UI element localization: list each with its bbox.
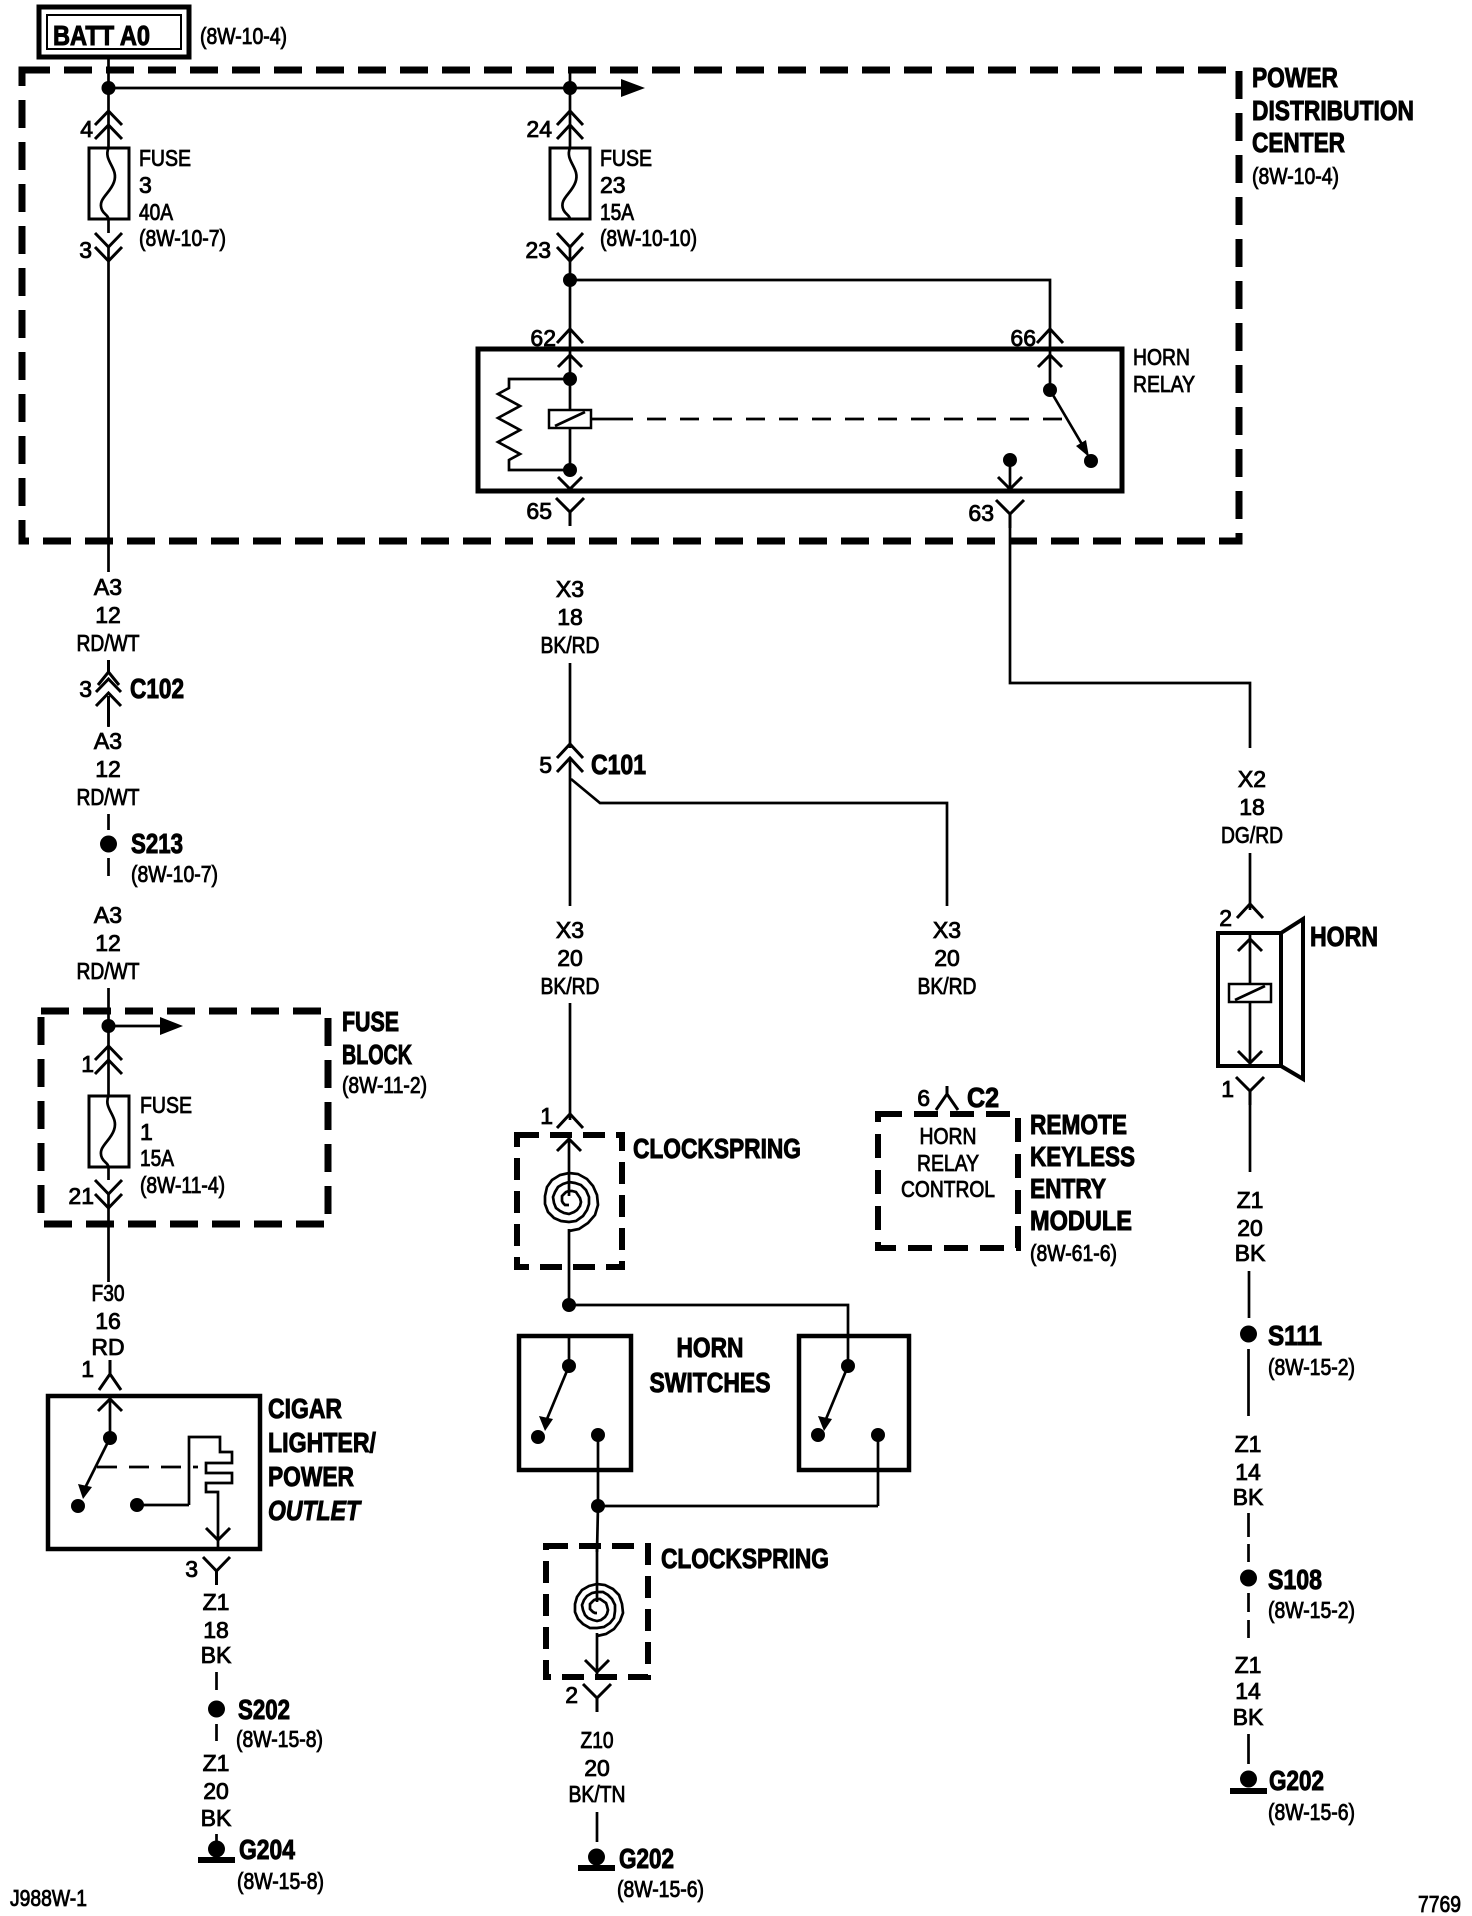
right horn switch box [799,1336,909,1470]
svg-text:20: 20 [934,945,960,971]
fuse F1 body [89,1096,129,1167]
svg-text:S213: S213 [131,828,183,859]
svg-text:OUTLET: OUTLET [268,1495,362,1526]
switch linkage dashed line [97,1466,198,1469]
pin 63 connector Y [996,500,1024,528]
node left switch contact [531,1430,545,1444]
cigar lighter label [268,1393,376,1526]
relay switch arm [1050,390,1098,468]
svg-text:S108: S108 [1268,1564,1322,1595]
arrow tap to other circuits [109,1017,184,1035]
wire fuse 23 to relay node [569,247,572,349]
svg-text:23: 23 [525,237,551,263]
wire A3 label (upper) [77,574,140,656]
wire right switch output down [877,1435,880,1506]
svg-text:RD/WT: RD/WT [77,784,140,810]
horn coil [1229,984,1271,1002]
wire from BATT A0 down into PDC [107,59,110,88]
svg-text:X2: X2 [1238,766,1266,792]
cigar switch arm [78,1438,110,1499]
svg-text:(8W-15-8): (8W-15-8) [237,1868,324,1894]
svg-text:14: 14 [1235,1459,1261,1485]
svg-text:(8W-15-2): (8W-15-2) [1268,1597,1355,1623]
horn relay label [1133,344,1195,397]
wire segment to S111 [1248,1271,1251,1318]
splice S108 [1240,1564,1355,1623]
svg-text:BK: BK [1235,1240,1266,1266]
svg-text:C2: C2 [967,1082,999,1113]
svg-text:FUSE: FUSE [342,1006,399,1037]
cigar lighter box [48,1396,260,1549]
svg-text:X3: X3 [933,917,961,943]
node right switch pivot [841,1359,855,1373]
splice S111 [1240,1320,1355,1380]
wire to clockspring pin 1 [569,1003,572,1120]
svg-text:1: 1 [1221,1076,1234,1102]
wire A3 label (middle) [77,720,140,810]
svg-text:SWITCHES: SWITCHES [650,1367,771,1398]
pin 3 connector Y [203,1557,230,1585]
svg-text:A3: A3 [94,574,122,600]
wire spiral to switches node [568,1229,571,1305]
pin 1 connector lambda [99,1360,121,1390]
svg-text:BK/RD: BK/RD [541,973,600,999]
wire left switch output down [597,1435,600,1506]
wire to Z1 label [1249,1105,1252,1172]
svg-text:16: 16 [95,1308,121,1334]
right switch arm [818,1366,848,1431]
svg-text:BK/RD: BK/RD [541,632,600,658]
svg-text:15A: 15A [600,199,635,225]
clockspring coil spiral (upper) [545,1173,598,1231]
svg-text:1: 1 [540,1103,553,1129]
wire segment to G202 [596,1812,599,1842]
horn coil return wire [1249,1002,1252,1066]
svg-text:HORN: HORN [677,1332,744,1363]
svg-text:G204: G204 [239,1834,295,1865]
svg-text:12: 12 [95,756,121,782]
svg-text:14: 14 [1235,1678,1261,1704]
svg-text:2: 2 [565,1682,578,1708]
svg-text:HORN: HORN [1133,344,1190,370]
relay pin 65 exit arrow [558,477,582,489]
svg-text:S202: S202 [238,1694,290,1725]
wire 65 to C101 [569,663,572,748]
svg-text:7769: 7769 [1418,1891,1461,1916]
pin 1 connector chevrons [95,1046,122,1074]
ground G202 (right) [1230,1765,1355,1825]
svg-text:FUSE: FUSE [600,145,652,171]
pin 65 connector Y [556,498,584,526]
svg-text:RD: RD [91,1334,124,1360]
svg-text:(8W-10-4): (8W-10-4) [200,23,287,49]
relay pin 62 entry arrow [558,355,582,367]
wire segment to C102 [107,660,110,668]
wire down to lower clockspring [597,1506,598,1552]
horn pin 2 entry arrow [1238,939,1262,951]
svg-text:CONTROL: CONTROL [901,1176,995,1202]
svg-text:X3: X3 [556,576,584,602]
svg-text:(8W-10-7): (8W-10-7) [139,225,226,251]
wire Z10 label [569,1727,626,1807]
node left switch output [591,1428,605,1442]
relay pin 66 entry arrow [1038,355,1062,367]
wire fuse 1 out of fuse block [107,1167,110,1180]
svg-text:21: 21 [68,1183,94,1209]
wire segment to S202 [215,1672,218,1690]
svg-text:18: 18 [557,604,583,630]
node top of coil [563,372,577,386]
svg-text:LIGHTER/: LIGHTER/ [268,1427,376,1458]
relay contact common wire [1049,349,1052,390]
svg-text:3: 3 [185,1556,198,1582]
wire X3 20 label (left) [541,917,600,999]
svg-text:40A: 40A [139,199,174,225]
pin 24 connector chevrons [557,111,583,139]
wire segment from S213 [107,858,110,876]
svg-text:3: 3 [139,172,152,198]
stub from dashed border to node [569,72,572,88]
connector C101 [539,744,646,780]
svg-text:(8W-10-7): (8W-10-7) [131,861,218,887]
svg-text:65: 65 [526,498,552,524]
horn relay box [478,349,1122,491]
pin 21 connector chevrons [95,1180,122,1208]
element exit arrow [206,1528,230,1540]
wire C101 down [569,758,572,906]
svg-text:2: 2 [1219,905,1232,931]
clockspring lower dashed box [546,1546,648,1677]
wire fuse 3 down and out of PDC [107,219,110,233]
svg-text:15A: 15A [140,1145,175,1171]
battery feed box BATT A0 [39,7,189,57]
node horn switch feed [562,1298,576,1312]
pin 3 connector chevrons [95,233,122,261]
pin 2 connector Y [583,1684,611,1712]
svg-text:3: 3 [79,237,92,263]
node at battery feed junction [102,81,116,95]
svg-text:A3: A3 [94,902,122,928]
svg-text:BK: BK [1233,1484,1264,1510]
svg-text:(8W-11-2): (8W-11-2) [342,1072,427,1098]
svg-text:HORN: HORN [920,1123,977,1149]
remote keyless entry module dashed box [878,1114,1018,1248]
node feeding fuse 23 [563,81,577,95]
wire Z1 14 label (lower) [1233,1652,1264,1730]
left switch arm [539,1366,569,1431]
horn speaker flare [1281,919,1303,1079]
svg-text:MODULE: MODULE [1030,1205,1132,1236]
pin 4 connector chevrons [95,111,122,139]
node switch pivot [103,1431,117,1445]
svg-text:G202: G202 [1269,1765,1324,1796]
svg-text:1: 1 [140,1119,153,1145]
relay coil [549,410,591,428]
horn exit arrow [1238,1051,1262,1063]
node relay contact pivot [1043,383,1057,397]
wire Z1 20 label (horn) [1235,1187,1266,1266]
node feeding horn relay coil and contact [563,273,577,287]
wire X2 label [1221,766,1283,848]
clockspring coil spiral (lower) [575,1584,623,1636]
node right switch contact [811,1428,825,1442]
pin 23 connector chevrons [557,233,583,261]
pin 6 connector lambda [936,1086,958,1110]
node relay output contact [1003,453,1017,467]
wire to fuse 1 [107,1060,110,1096]
wire Z1 18 label [201,1589,232,1668]
svg-text:F30: F30 [92,1280,125,1306]
fuse F23 value label [600,145,697,251]
svg-text:BK: BK [201,1805,232,1831]
cigar pin 1 entry arrow [98,1397,122,1438]
svg-text:G202: G202 [619,1843,674,1874]
pin 1 connector chevron [557,1114,583,1128]
svg-text:(8W-61-6): (8W-61-6) [1030,1240,1117,1266]
remote keyless entry module label [1030,1109,1135,1266]
splice S202 [208,1694,323,1752]
clockspring entry arrow [557,1139,581,1151]
relay pin 63 exit arrow [998,477,1022,489]
wire down to horn pin 2 [1249,853,1252,910]
svg-text:A3: A3 [94,728,122,754]
svg-text:63: 63 [968,500,994,526]
node switch outputs join [591,1499,605,1513]
clockspring upper dashed box [517,1135,622,1267]
svg-text:20: 20 [557,945,583,971]
wire into fuse block [107,988,110,1062]
wire node across to relay pin 66 [570,280,1050,349]
relay suppression resistor [498,379,570,470]
svg-text:J988W-1: J988W-1 [10,1885,87,1911]
svg-text:20: 20 [584,1755,610,1781]
pin 66 connector chevron [1037,329,1063,343]
pin 1 connector Y [1236,1077,1264,1105]
cigar heating element [189,1437,232,1532]
svg-text:20: 20 [203,1778,229,1804]
svg-text:5: 5 [539,752,552,778]
wire spiral to exit arrow [596,1633,599,1677]
wire Z1 20 label [201,1750,232,1831]
horn relay control label [901,1123,995,1202]
svg-text:(8W-15-8): (8W-15-8) [236,1726,323,1752]
fuse F1 value label [140,1092,225,1198]
svg-text:24: 24 [526,116,552,142]
wire Z1 14 label (upper) [1233,1431,1264,1510]
svg-text:DG/RD: DG/RD [1221,822,1283,848]
svg-text:1: 1 [81,1051,94,1077]
svg-text:ENTRY: ENTRY [1030,1173,1106,1204]
svg-text:(8W-15-2): (8W-15-2) [1268,1354,1355,1380]
wire into lower spiral [596,1546,599,1602]
svg-text:12: 12 [95,602,121,628]
fuse F3 value label [139,145,226,251]
svg-text:Z1: Z1 [1237,1187,1264,1213]
svg-text:(8W-10-4): (8W-10-4) [1252,163,1339,189]
svg-text:CENTER: CENTER [1252,127,1345,158]
svg-text:4: 4 [80,116,93,142]
fuse F23 body [550,148,590,219]
wire X3 20 label (right) [918,917,977,999]
horn coil feed wire [1249,933,1252,984]
wire segment to G204 [215,1834,218,1841]
ground G202 (lower) [578,1843,704,1902]
branch wire to RKE module [571,779,947,906]
svg-text:BK/TN: BK/TN [569,1781,626,1807]
svg-text:6: 6 [917,1085,930,1111]
wire joining switch outputs [598,1505,878,1508]
svg-text:18: 18 [1239,794,1265,820]
ground G204 [198,1834,324,1894]
svg-text:18: 18 [203,1617,229,1643]
svg-text:20: 20 [1237,1215,1263,1241]
node element return [130,1498,144,1512]
svg-text:HORN: HORN [1310,921,1378,952]
svg-text:BK/RD: BK/RD [918,973,977,999]
node left switch pivot [562,1359,576,1373]
svg-text:RD/WT: RD/WT [77,958,140,984]
svg-text:CIGAR: CIGAR [268,1393,342,1424]
svg-text:Z1: Z1 [1235,1431,1262,1457]
pin 2 connector chevron [1237,904,1263,918]
svg-text:X3: X3 [556,917,584,943]
svg-text:C102: C102 [130,673,184,704]
svg-text:REMOTE: REMOTE [1030,1109,1127,1140]
svg-text:Z1: Z1 [203,1589,230,1615]
svg-text:DISTRIBUTION: DISTRIBUTION [1252,95,1414,126]
wire segment from S202 [215,1724,218,1741]
wire segment to S213 [107,814,110,830]
wire segment to G202 [1247,1734,1250,1764]
node bottom of coil [563,463,577,477]
wire into spiral [568,1135,571,1196]
svg-text:(8W-10-10): (8W-10-10) [600,225,697,251]
svg-text:CLOCKSPRING: CLOCKSPRING [661,1543,829,1574]
left horn switch box [519,1336,631,1470]
svg-text:BATT A0: BATT A0 [53,20,150,51]
svg-text:Z1: Z1 [1235,1652,1262,1678]
wire segments from S108 [1247,1593,1250,1638]
node in fuse block [102,1019,116,1033]
svg-text:POWER: POWER [268,1461,354,1492]
svg-text:23: 23 [600,172,626,198]
wire node to fuse 3 [107,88,110,148]
connector C102 [79,660,184,726]
svg-text:C101: C101 [591,749,646,780]
wire F30 label [91,1280,124,1360]
svg-text:BLOCK: BLOCK [342,1039,412,1070]
svg-text:BK: BK [1233,1704,1264,1730]
svg-text:CLOCKSPRING: CLOCKSPRING [633,1133,801,1164]
relay actuation dashed link [591,418,1063,421]
node switch lower contact [71,1499,85,1513]
wire node to fuse 23 [569,88,572,148]
wire contact to pin 63 [1009,460,1012,491]
fuse block label [342,1006,427,1098]
arrow continuing bus to right [570,79,645,97]
clockspring exit arrow [585,1660,609,1672]
wire segment from S111 [1247,1349,1250,1416]
relay coil feed wire [569,349,572,470]
power distribution center label [1252,62,1414,189]
svg-text:FUSE: FUSE [140,1092,192,1118]
svg-text:POWER: POWER [1252,62,1338,93]
fuse F3 body [89,148,129,219]
svg-text:(8W-15-6): (8W-15-6) [1268,1799,1355,1825]
svg-text:1: 1 [81,1356,94,1382]
bus wire A0 across top of PDC [109,87,571,90]
svg-text:BK: BK [201,1642,232,1668]
svg-text:RELAY: RELAY [1133,371,1195,397]
svg-text:S111: S111 [1268,1320,1322,1351]
svg-text:Z10: Z10 [581,1727,614,1753]
power distribution center dashed enclosure [22,70,1239,541]
wire segments to S108 [1247,1513,1250,1562]
svg-text:RD/WT: RD/WT [77,630,140,656]
pin 62 connector chevron [557,329,583,343]
svg-text:(8W-11-4): (8W-11-4) [140,1172,225,1198]
fuse block dashed enclosure [41,1011,328,1224]
wire pin 63 down and across to horn [1010,526,1250,748]
svg-text:RELAY: RELAY [917,1150,979,1176]
splice S213 [100,828,218,887]
svg-text:Z1: Z1 [203,1750,230,1776]
svg-text:KEYLESS: KEYLESS [1030,1141,1135,1172]
wire X3 18 label [541,576,600,658]
svg-text:12: 12 [95,930,121,956]
wire across to right horn switch [569,1305,848,1336]
node right switch output [871,1428,885,1442]
svg-text:FUSE: FUSE [139,145,191,171]
wire A3 label (lower) [77,902,140,984]
right switch feed wire [847,1336,850,1366]
horn box [1218,933,1281,1066]
svg-text:3: 3 [79,676,92,702]
wire node to heating element [137,1504,189,1507]
svg-text:(8W-15-6): (8W-15-6) [617,1876,704,1902]
left switch feed wire [568,1336,571,1366]
horn switches label [650,1332,771,1398]
